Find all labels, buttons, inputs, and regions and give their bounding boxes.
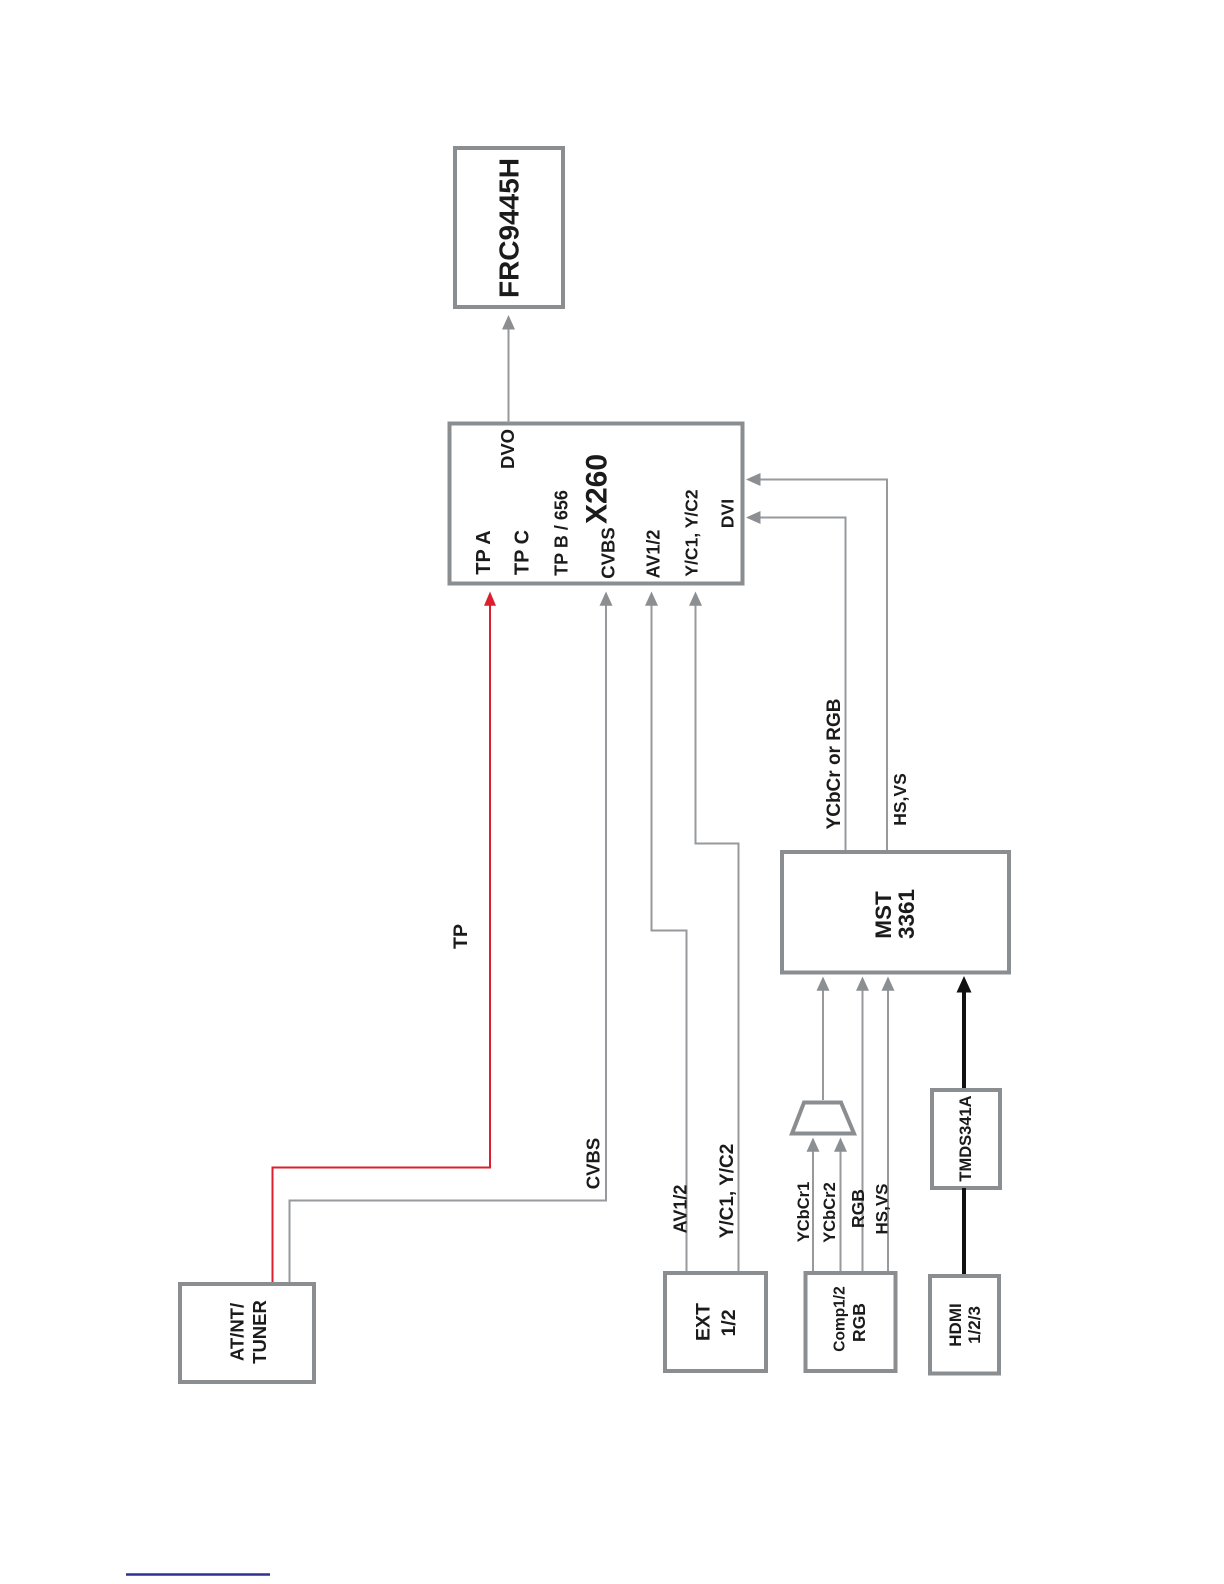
svg-text:RGB: RGB [848, 1189, 868, 1228]
svg-text:TP: TP [450, 924, 472, 949]
svg-text:YCbCr or RGB: YCbCr or RGB [824, 699, 845, 830]
svg-text:HS,VS: HS,VS [873, 1183, 892, 1234]
svg-text:AV1/2: AV1/2 [644, 530, 664, 579]
svg-text:TP B / 656: TP B / 656 [552, 490, 572, 576]
svg-text:AT/NT/: AT/NT/ [227, 1303, 248, 1361]
svg-text:DVO: DVO [497, 429, 518, 469]
svg-text:X260: X260 [581, 454, 614, 524]
svg-text:TMDS341A: TMDS341A [957, 1095, 975, 1181]
svg-text:CVBS: CVBS [598, 527, 619, 578]
svg-text:1/2/3: 1/2/3 [965, 1306, 984, 1344]
svg-text:YCbCr1: YCbCr1 [795, 1182, 813, 1243]
svg-text:FRC9445H: FRC9445H [494, 158, 525, 298]
svg-text:TP C: TP C [512, 530, 534, 575]
svg-text:DVI: DVI [717, 499, 737, 528]
svg-text:Y/C1, Y/C2: Y/C1, Y/C2 [717, 1144, 738, 1239]
svg-text:1/2: 1/2 [718, 1309, 740, 1336]
svg-text:MST: MST [871, 891, 896, 939]
svg-text:Y/C1, Y/C2: Y/C1, Y/C2 [681, 489, 701, 576]
svg-text:YCbCr2: YCbCr2 [821, 1182, 839, 1243]
svg-text:HDMI: HDMI [946, 1303, 965, 1346]
svg-text:RGB: RGB [849, 1303, 869, 1342]
svg-text:CVBS: CVBS [583, 1138, 604, 1189]
svg-text:HS,VS: HS,VS [890, 773, 910, 826]
svg-text:Comp1/2: Comp1/2 [832, 1286, 849, 1351]
svg-text:EXT: EXT [693, 1303, 715, 1341]
svg-text:TUNER: TUNER [249, 1300, 270, 1364]
svg-text:3361: 3361 [894, 889, 919, 939]
svg-text:AV1/2: AV1/2 [671, 1185, 691, 1234]
svg-text:TP A: TP A [473, 530, 495, 574]
